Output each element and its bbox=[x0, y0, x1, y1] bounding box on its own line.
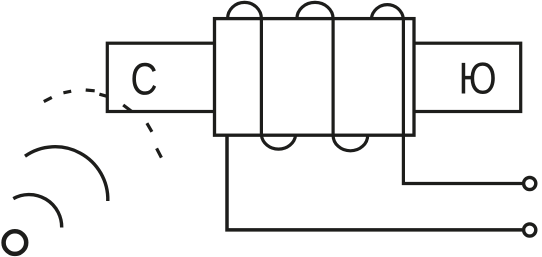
coil L1 front turn wire 1 bbox=[260, 19, 263, 136]
field wave arc large bbox=[25, 147, 108, 201]
terminal T2 (lower) bbox=[524, 224, 536, 236]
dashed field line arc (7 dashes) bbox=[44, 90, 162, 158]
label Ю (south pole) bbox=[462, 62, 495, 94]
coil L1 top turn arc 3 bbox=[371, 5, 403, 19]
coil L1 top turn arc 2 bbox=[297, 2, 333, 18]
coil L1 body bbox=[215, 19, 415, 136]
coil L1 top turn arc 1 bbox=[228, 2, 262, 18]
wire lead from coil left side to lower terminal bbox=[227, 135, 522, 230]
core bar right pole (Ю) bbox=[409, 43, 521, 111]
wire lead from coil right turn to upper terminal bbox=[403, 19, 522, 184]
core bar left pole (С) bbox=[107, 43, 219, 111]
coil L1 bottom turn arc 1 bbox=[261, 135, 295, 149]
compass body circle bbox=[4, 231, 27, 254]
label С (north pole) bbox=[132, 63, 156, 95]
coil L1 bottom turn arc 2 bbox=[333, 135, 368, 151]
field wave arc small bbox=[13, 195, 61, 228]
terminal T1 (upper) bbox=[524, 177, 536, 189]
coil L1 front turn wire 2 bbox=[332, 19, 335, 136]
